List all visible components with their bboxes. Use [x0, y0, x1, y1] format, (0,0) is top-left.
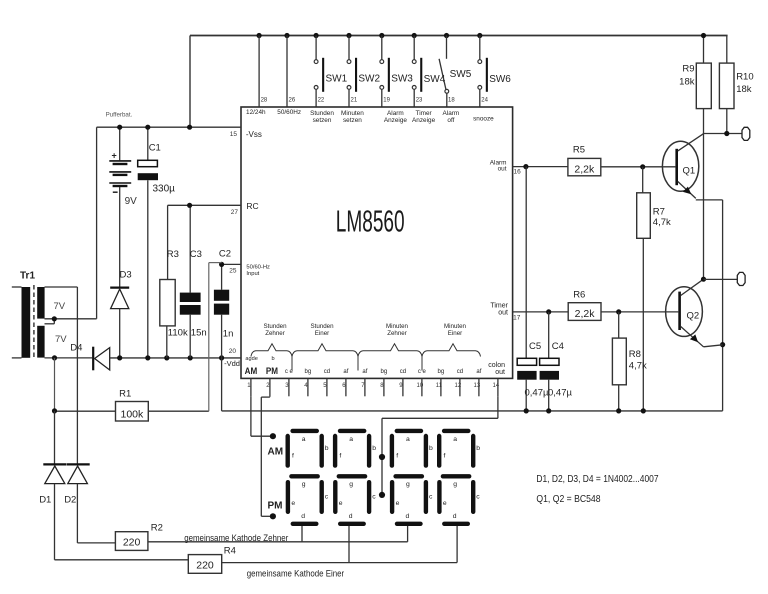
- U1 digit-group braces and labels: [251, 323, 481, 371]
- svg-text:330µ: 330µ: [153, 184, 176, 195]
- svg-text:110k: 110k: [168, 328, 188, 339]
- svg-text:28: 28: [261, 98, 268, 104]
- svg-text:1n: 1n: [223, 329, 234, 340]
- svg-text:af: af: [343, 369, 348, 375]
- capacitor C4 0,47u: [540, 312, 559, 411]
- svg-text:Zehner: Zehner: [387, 330, 407, 337]
- node Q2 collector junction: [701, 277, 706, 282]
- svg-text:b: b: [372, 445, 376, 452]
- svg-text:18k: 18k: [679, 77, 695, 88]
- wire R1 riser top jog: [209, 262, 222, 264]
- svg-text:12: 12: [455, 383, 462, 389]
- transistor Q1: [662, 134, 703, 199]
- svg-text:gemeinsame Kathode Zehner: gemeinsame Kathode Zehner: [184, 532, 288, 543]
- wire primary top lead: [12, 286, 22, 288]
- svg-text:d: d: [301, 513, 305, 520]
- wire RC line (pin 27): [168, 204, 241, 206]
- svg-text:15: 15: [230, 131, 238, 138]
- node R3 on -Vdd rail: [164, 355, 169, 360]
- svg-text:af: af: [476, 369, 481, 375]
- svg-text:c: c: [325, 494, 329, 501]
- wire digit3 cathode drop: [407, 526, 409, 542]
- node colon LED upper: [379, 454, 385, 460]
- wire secondary top lead to D2 branch: [45, 286, 78, 288]
- svg-text:Anzeige: Anzeige: [412, 117, 436, 124]
- 7-segment display digit 3: [392, 431, 433, 524]
- terminal alarm output connector: [742, 127, 750, 140]
- node D3 on -Vdd rail: [117, 355, 122, 360]
- pin 25 50/60-Hz Input labels: [229, 265, 270, 278]
- wire Q1 emitter horizontal: [696, 199, 723, 201]
- svg-text:R1: R1: [119, 388, 131, 399]
- switch SW3: [380, 36, 413, 108]
- svg-text:R7: R7: [653, 207, 665, 218]
- wire R1 right lead: [148, 410, 209, 412]
- svg-text:19: 19: [383, 98, 390, 104]
- battery 9V: [109, 127, 131, 287]
- svg-text:27: 27: [231, 209, 239, 216]
- svg-text:Tr1: Tr1: [20, 271, 35, 282]
- resistor R2 220: [77, 532, 147, 551]
- node top rail junction 12/24h: [257, 33, 262, 38]
- label R7 4,7k: [653, 207, 671, 229]
- svg-text:g: g: [453, 481, 457, 488]
- svg-text:C5: C5: [529, 341, 541, 352]
- svg-text:out: out: [498, 309, 508, 316]
- svg-text:e: e: [443, 500, 447, 507]
- node top rail junction SW3 col: [379, 33, 384, 38]
- wire center tap lead: [45, 318, 97, 320]
- node top-rail drop to -Vss: [187, 125, 192, 130]
- svg-text:C4: C4: [552, 341, 564, 352]
- wire pin2 PM jog: [261, 396, 270, 398]
- svg-text:g: g: [349, 481, 353, 488]
- resistor R5 2.2k: [568, 158, 601, 175]
- node C3 on -Vdd rail: [188, 355, 193, 360]
- svg-text:R5: R5: [573, 144, 585, 155]
- svg-text:f: f: [444, 453, 446, 460]
- svg-text:17: 17: [513, 314, 521, 321]
- pin 15 -Vss labels: [230, 130, 262, 139]
- svg-text:R3: R3: [167, 249, 179, 260]
- svg-text:D1: D1: [39, 495, 51, 506]
- svg-text:snooze: snooze: [473, 116, 494, 123]
- svg-text:c: c: [372, 494, 376, 501]
- svg-text:18k: 18k: [736, 84, 752, 95]
- svg-text:SW5: SW5: [450, 69, 472, 80]
- transistor Q2: [666, 279, 723, 347]
- wire Q1 emitter drop: [722, 200, 724, 411]
- svg-text:0,47µ: 0,47µ: [548, 388, 572, 399]
- label R10 18k: [736, 72, 753, 96]
- node top rail junction SW2 col: [346, 33, 351, 38]
- transformer Tr1: [20, 271, 45, 359]
- svg-text:R4: R4: [224, 546, 236, 557]
- node R8 on ground rail: [616, 408, 621, 413]
- node center tap: [52, 316, 57, 321]
- wire R1 left lead: [55, 410, 116, 412]
- svg-text:setzen: setzen: [313, 117, 332, 124]
- svg-text:AM: AM: [268, 446, 284, 457]
- svg-text:SW3: SW3: [391, 74, 413, 85]
- pin 27 RC labels: [231, 201, 259, 216]
- node C4 on ground rail: [546, 408, 551, 413]
- svg-text:+: +: [112, 151, 117, 161]
- svg-text:a: a: [406, 436, 410, 443]
- wire center tap riser to -Vss: [96, 127, 98, 319]
- svg-text:2,2k: 2,2k: [575, 308, 596, 320]
- terminal timer output connector: [737, 272, 745, 285]
- wire pin2 stub ext: [269, 395, 271, 398]
- svg-text:20: 20: [229, 348, 237, 355]
- wire R1 riser to input: [208, 263, 210, 412]
- svg-text:-Vdd: -Vdd: [224, 359, 240, 368]
- wire digit4 cathode drop: [456, 526, 458, 563]
- resistor R6 2.2k: [568, 303, 601, 321]
- svg-text:d: d: [406, 513, 410, 520]
- svg-text:b: b: [476, 445, 480, 452]
- wire colon feed horizontal: [382, 417, 498, 419]
- wire digit2 cathode drop: [348, 526, 350, 563]
- node C2 on -Vdd rail: [219, 355, 224, 360]
- svg-text:g: g: [302, 481, 306, 488]
- node timer/C4 junction: [546, 309, 551, 314]
- svg-text:e: e: [339, 500, 343, 507]
- node R5/R7 junction: [640, 164, 645, 169]
- svg-text:b: b: [429, 445, 433, 452]
- 7-segment display digit 2: [335, 431, 376, 524]
- node transformer bottom junction: [52, 355, 57, 360]
- svg-text:cd: cd: [457, 369, 463, 375]
- svg-text:D4: D4: [70, 343, 82, 354]
- svg-text:out: out: [495, 369, 505, 376]
- svg-text:a: a: [349, 436, 353, 443]
- svg-text:R10: R10: [736, 72, 753, 83]
- svg-text:bg: bg: [438, 369, 445, 375]
- wire alarm line R5 to Q1: [601, 166, 676, 168]
- switch SW2: [347, 36, 380, 108]
- svg-text:af: af: [362, 369, 367, 375]
- pin 14 colon out labels: [488, 362, 505, 376]
- svg-text:7V: 7V: [54, 301, 66, 312]
- svg-text:b: b: [325, 445, 329, 452]
- diode D4: [93, 347, 110, 371]
- svg-text:220: 220: [196, 560, 214, 572]
- svg-text:g: g: [406, 481, 410, 488]
- svg-text:220: 220: [123, 537, 141, 549]
- node R6/R8 junction: [616, 309, 621, 314]
- svg-text:SW1: SW1: [326, 74, 348, 85]
- svg-text:18: 18: [448, 98, 455, 104]
- svg-text:D1, D2, D3, D4 = 1N4002...40: D1, D2, D3, D4 = 1N4002...4007: [536, 472, 658, 484]
- resistor R3 110k: [160, 205, 175, 358]
- diode D2: [67, 287, 90, 543]
- node Q1/Q2 emitter junction: [720, 342, 725, 347]
- svg-text:2,2k: 2,2k: [574, 163, 595, 175]
- node R9 on top rail: [701, 33, 706, 38]
- wire transformer bottom to R1 junction: [54, 358, 56, 411]
- node R1/D1 junction: [52, 408, 57, 413]
- wire center tap stub: [45, 323, 55, 325]
- svg-text:SW2: SW2: [358, 74, 380, 85]
- capacitor C5 0,47u: [517, 167, 536, 411]
- svg-text:16: 16: [514, 168, 522, 175]
- node battery to -Vss: [117, 125, 122, 130]
- wire Q1 collector junction horizontal: [704, 133, 742, 135]
- node C3 on RC line: [187, 203, 192, 208]
- U1 bottom pin segment labels: [245, 356, 482, 376]
- wire pin28 12/24h: [258, 36, 260, 108]
- svg-text:f: f: [339, 453, 341, 460]
- svg-text:cd: cd: [400, 369, 406, 375]
- svg-text:C2: C2: [219, 248, 231, 259]
- svg-text:bg: bg: [305, 369, 312, 375]
- pin 20 -Vdd labels: [224, 348, 240, 368]
- svg-text:Einer: Einer: [315, 330, 329, 337]
- capacitor C2 1n: [214, 264, 229, 358]
- svg-text:R2: R2: [151, 523, 163, 534]
- wire Q2 collector horizontal: [704, 278, 738, 280]
- resistor R7 4.7k: [637, 167, 651, 411]
- svg-text:-Vss: -Vss: [246, 130, 262, 139]
- svg-text:f: f: [396, 453, 398, 460]
- svg-text:R6: R6: [573, 290, 585, 301]
- pin 17 Timer out labels: [490, 303, 520, 322]
- svg-text:d: d: [349, 513, 353, 520]
- svg-text:0,47µ: 0,47µ: [525, 388, 549, 399]
- svg-text:setzen: setzen: [343, 117, 362, 124]
- resistor R1 100k: [116, 402, 149, 422]
- wire top supply rail: [190, 35, 728, 37]
- svg-text:C3: C3: [190, 249, 202, 260]
- wire -Vdd rail D4 to IC pin 20: [110, 357, 241, 359]
- wire top-rail drop to -Vss line: [189, 36, 191, 128]
- node C1 to -Vss: [145, 125, 150, 130]
- svg-text:11: 11: [436, 383, 443, 389]
- svg-text:Q1: Q1: [683, 166, 696, 177]
- U1 top pin function labels: [246, 109, 494, 124]
- svg-text:out: out: [498, 166, 507, 173]
- svg-text:24: 24: [481, 98, 488, 104]
- wire alarm out line: [513, 166, 568, 168]
- switch SW4: [412, 36, 445, 108]
- node PM LED: [270, 513, 276, 519]
- op-amp U1 LM8560 IC body: [241, 107, 513, 378]
- svg-text:13: 13: [474, 383, 481, 389]
- svg-text:AM: AM: [245, 366, 258, 377]
- svg-text:a: a: [302, 436, 306, 443]
- wire -Vss line (pin 15): [97, 126, 241, 128]
- node AM LED: [270, 433, 276, 439]
- wire pin1 AM horizontal: [251, 435, 273, 437]
- wire pin2 PM drop: [260, 397, 262, 516]
- svg-text:14: 14: [493, 383, 500, 389]
- wire pin26 50/60Hz: [286, 36, 288, 108]
- svg-text:26: 26: [289, 98, 296, 104]
- pin 16 Alarm out labels: [490, 160, 521, 176]
- svg-text:50/60-Hz: 50/60-Hz: [246, 265, 270, 271]
- resistor R9 18k: [696, 36, 711, 280]
- node R10 output junction: [724, 131, 729, 136]
- svg-text:a: a: [453, 436, 457, 443]
- svg-text:SW6: SW6: [489, 74, 511, 85]
- wire timer line R6 to Q2: [601, 311, 678, 313]
- svg-text:D3: D3: [120, 270, 132, 281]
- diode D3: [110, 288, 129, 358]
- svg-text:9V: 9V: [125, 196, 138, 207]
- wire pin2 PM horizontal: [261, 515, 273, 517]
- svg-text:Zehner: Zehner: [265, 330, 285, 337]
- node C1 on -Vdd rail: [145, 355, 150, 360]
- svg-text:23: 23: [416, 98, 423, 104]
- wire primary bottom lead: [12, 357, 22, 359]
- svg-text:e: e: [291, 500, 295, 507]
- svg-text:LM8560: LM8560: [336, 205, 405, 239]
- svg-text:4,7k: 4,7k: [629, 361, 647, 372]
- wire gemeinsame Kathode Zehner line: [148, 541, 408, 543]
- svg-text:R9: R9: [682, 64, 694, 75]
- svg-text:D2: D2: [64, 495, 76, 506]
- svg-text:25: 25: [229, 268, 237, 275]
- node top rail junction SW5 col: [444, 33, 449, 38]
- node alarm/C5 junction: [523, 164, 528, 169]
- svg-text:f: f: [292, 453, 294, 460]
- wire secondary bottom lead: [45, 357, 93, 359]
- wire center tap stub join: [53, 319, 55, 324]
- U1 bottom pin stubs 1-14: [251, 378, 498, 396]
- svg-text:off: off: [447, 117, 454, 124]
- label R9 18k: [679, 64, 695, 88]
- svg-text:agde: agde: [245, 356, 257, 362]
- capacitor C3 15n: [180, 205, 201, 358]
- svg-text:gemeinsame Kathode Einer: gemeinsame Kathode Einer: [247, 568, 345, 579]
- svg-text:100k: 100k: [121, 409, 145, 421]
- 7-segment display digit 4: [439, 431, 480, 524]
- pin numbers top row (28 26 22 21 19 23 18 24): [261, 98, 489, 104]
- switch SW1: [314, 36, 347, 108]
- node R7 on ground rail: [641, 408, 646, 413]
- node C2 to 50/60Hz input: [219, 262, 224, 267]
- svg-text:Anzeige: Anzeige: [384, 117, 408, 124]
- 7-segment display digit 1: [288, 431, 329, 524]
- wire C2 drop below -Vdd rail: [221, 358, 223, 411]
- svg-text:R8: R8: [629, 349, 641, 360]
- svg-text:colon: colon: [488, 362, 505, 369]
- wire gemeinsame Kathode Einer line: [222, 562, 457, 564]
- capacitor C1 330u: [138, 127, 158, 358]
- wire 50/60Hz input line (pin 25): [222, 263, 241, 265]
- resistor R10 18k: [719, 36, 734, 134]
- svg-text:Q1, Q2 = BC548: Q1, Q2 = BC548: [536, 493, 600, 505]
- svg-text:22: 22: [318, 98, 325, 104]
- svg-text:bg: bg: [381, 369, 388, 375]
- node top rail junction SW1 col: [314, 33, 319, 38]
- svg-text:15n: 15n: [191, 328, 207, 339]
- svg-text:Pufferbat.: Pufferbat.: [106, 112, 133, 119]
- wire bottom ground rail: [222, 410, 723, 412]
- wire digit1 cathode drop: [301, 526, 303, 542]
- svg-text:cd: cd: [324, 369, 330, 375]
- svg-text:Q2: Q2: [687, 311, 700, 322]
- node C5 on ground rail: [524, 408, 529, 413]
- svg-text:e: e: [396, 500, 400, 507]
- wire pin1 AM drop: [250, 396, 252, 436]
- svg-text:PM: PM: [268, 501, 283, 512]
- svg-text:PM: PM: [266, 366, 278, 377]
- svg-text:Einer: Einer: [448, 330, 462, 337]
- resistor R8 4.7k: [612, 312, 626, 411]
- svg-text:Input: Input: [246, 271, 259, 277]
- node colon LED lower: [379, 492, 385, 498]
- svg-text:RC: RC: [246, 201, 258, 211]
- svg-text:c: c: [476, 494, 480, 501]
- svg-text:50/60Hz: 50/60Hz: [277, 109, 301, 116]
- svg-text:b: b: [272, 356, 275, 362]
- svg-text:10: 10: [417, 383, 424, 389]
- wire timer out line: [513, 311, 569, 313]
- node top rail junction SW4 col: [412, 33, 417, 38]
- svg-text:d: d: [453, 513, 457, 520]
- switch SW6: [478, 36, 511, 108]
- node top rail junction 50/60Hz: [284, 33, 289, 38]
- switch SW5: [439, 36, 472, 108]
- svg-text:21: 21: [351, 98, 358, 104]
- diode D1: [43, 411, 66, 560]
- svg-text:12/24h: 12/24h: [246, 109, 266, 116]
- resistor R4 220: [55, 555, 222, 574]
- label R8 4,7k: [629, 349, 647, 372]
- node top rail junction SW6 col: [477, 33, 482, 38]
- pin numbers bottom row 1-14: [247, 383, 500, 389]
- svg-text:7V: 7V: [55, 334, 67, 345]
- svg-text:c: c: [429, 494, 433, 501]
- wire pin14 colon drop: [497, 396, 499, 418]
- wire colon vertical: [381, 418, 383, 495]
- svg-text:4,7k: 4,7k: [653, 217, 671, 228]
- svg-text:C1: C1: [149, 143, 161, 154]
